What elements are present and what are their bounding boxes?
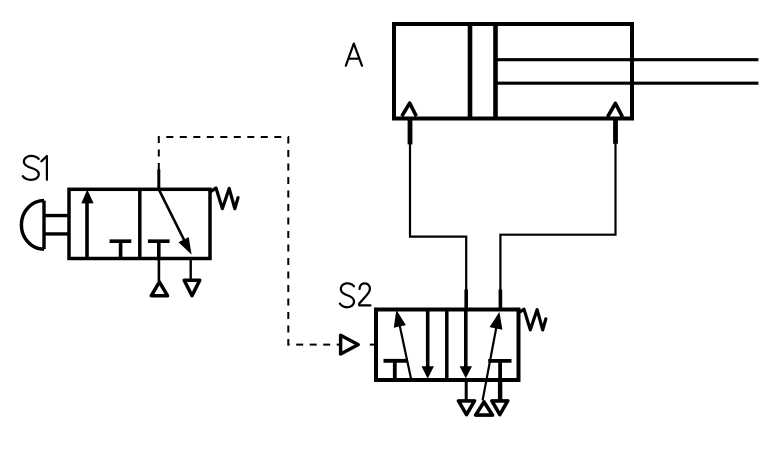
valve S2 exhaust stem right	[498, 380, 502, 400]
cylinder A piston	[470, 24, 496, 119]
dashed pilot line from S1 to S2	[159, 137, 340, 345]
valve S2 body	[376, 310, 519, 381]
valve S2 pneumatic pilot triangle	[341, 335, 359, 354]
valve S2 right flow arrow down	[460, 310, 472, 379]
valve S1 diagonal flow arrow	[159, 190, 191, 254]
valve S2 exhaust stem left	[465, 380, 468, 400]
valve S1 exhaust triangle up	[151, 282, 167, 296]
cylinder A piston rod	[496, 60, 759, 83]
valve S2 left diagonal flow arrow	[394, 310, 411, 380]
valve S1 exhaust stem below diagonal arrow	[189, 259, 191, 280]
valve S2 exhaust triangle down left	[459, 401, 475, 415]
cylinder port arrow left	[402, 103, 417, 116]
valve S2 left flow arrow down	[422, 310, 434, 379]
valve S2 position divider	[445, 310, 449, 381]
valve S2 supply triangle up middle	[476, 402, 493, 415]
valve S1 return spring	[210, 188, 238, 209]
label S2	[340, 283, 371, 307]
cylinder port arrow right	[608, 103, 623, 117]
label S1	[23, 156, 47, 180]
wire cylinder left port to valve S2 port 1	[410, 144, 466, 291]
valve S2 top stub left	[464, 290, 468, 312]
valve S2 right diagonal flow arrow	[483, 312, 503, 400]
valve S2 left blocked port T	[384, 361, 407, 380]
valve S1 push button actuator	[21, 201, 69, 250]
valve S1 exhaust triangle down	[184, 280, 200, 295]
label A	[346, 44, 362, 66]
cylinder A body	[394, 24, 632, 119]
valve S1 blocked port T left	[110, 241, 132, 258]
dashed pilot stub into S2	[370, 344, 376, 346]
valve S2 exhaust triangle down right	[492, 401, 508, 415]
valve S2 return spring	[518, 309, 546, 330]
wire cylinder right port to valve S2 port 2	[500, 144, 615, 292]
cylinder port stub right	[613, 119, 618, 144]
valve S1 blocked port T right	[148, 241, 170, 258]
valve S1 exhaust stem below right T	[158, 259, 161, 282]
valve S2 top stub right	[499, 290, 503, 312]
solid pilot stub into S1	[157, 169, 160, 190]
valve S1 flow arrow up	[81, 190, 93, 259]
valve S1 position divider	[138, 189, 142, 258]
valve S2 right blocked port T	[488, 361, 511, 380]
cylinder port stub left	[408, 119, 413, 145]
valve S1 body	[69, 189, 210, 258]
